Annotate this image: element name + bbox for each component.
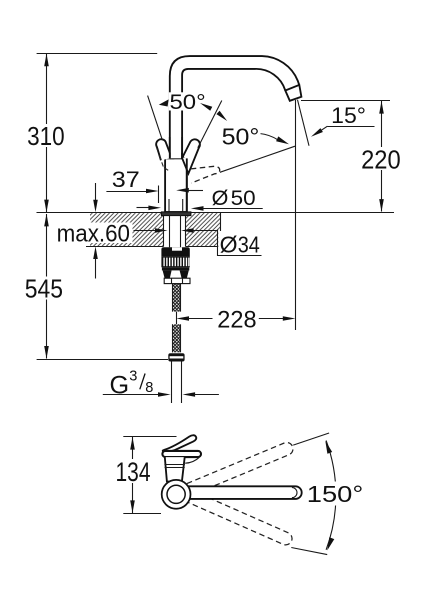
outlet vertical reference line: [295, 100, 297, 330]
label diameter 34 background: [218, 231, 263, 254]
deck right end edge: [220, 213, 222, 247]
svg-text:15°: 15°: [331, 103, 366, 128]
mounting collar: [164, 278, 190, 283]
body right edge redraw: [186, 158, 188, 212]
G3/8 threaded tube: [171, 362, 173, 404]
base flange on deck: [161, 212, 191, 216]
svg-text:Ø: Ø: [212, 186, 229, 210]
svg-text:34: 34: [238, 232, 260, 258]
hose centreline in dimension gap: [176, 312, 178, 325]
220 dimension line upper: [381, 101, 383, 147]
side-view cartridge cap: [162, 451, 201, 457]
svg-text:8: 8: [145, 380, 153, 396]
50-deg-1 ray right: [198, 101, 222, 148]
svg-text:134: 134: [116, 457, 151, 487]
220 arrow up: [379, 101, 384, 114]
228 dimension line left: [188, 318, 213, 320]
228 arrow left at axis: [176, 316, 189, 321]
50-deg-2 arc arrow: [276, 136, 289, 144]
545 arrow down: [44, 346, 49, 359]
220 top extension line: [301, 100, 390, 102]
50-deg-1 arc arrow right / 50-deg-2 arc arrow left (bowtie): [200, 103, 212, 111]
220 arrow down: [379, 199, 384, 212]
max.60 lower arrow line: [95, 258, 97, 279]
228 arrow right: [283, 316, 296, 321]
lever handle right tilted position: [182, 139, 200, 173]
G3/8 arrow left: [183, 392, 196, 397]
diameter-50 left tail line: [137, 207, 150, 209]
svg-text:545: 545: [25, 274, 63, 304]
svg-text:Ø: Ø: [220, 232, 238, 258]
310 arrow up: [44, 54, 49, 67]
diameter-34 right leader: [193, 230, 218, 232]
swivel ring outer: [162, 480, 191, 509]
lever handle horizontal position (dashed): [191, 166, 220, 183]
310 dimension line upper: [46, 54, 48, 125]
side-view spout tube: [183, 486, 302, 499]
label max.60 background: [55, 223, 133, 244]
37 leader line: [106, 191, 147, 193]
G3/8 leader line: [103, 394, 159, 396]
G3/8 connector nut: [168, 353, 184, 361]
37 extension line: [158, 186, 160, 204]
max.60 arrow up: [93, 246, 98, 259]
svg-text:50°: 50°: [222, 123, 260, 149]
diameter-34 arrow right: [155, 228, 168, 233]
mounting nut knurled ring: [161, 257, 189, 268]
mounting hole left edge: [163, 216, 165, 247]
545 arrow up: [44, 214, 49, 227]
G3/8 arrow right: [158, 392, 171, 397]
body inner line right: [182, 199, 184, 212]
50-deg-1 arc arrow left: [159, 99, 169, 106]
G3/8 right tail line: [194, 394, 219, 396]
134 dimension line lower: [132, 483, 134, 513]
15-deg leader underline: [327, 126, 374, 128]
mounting nut upper block: [161, 247, 189, 256]
150-deg arc: [326, 441, 336, 550]
134 top extension line: [123, 436, 176, 438]
shank tube left edge: [169, 216, 171, 248]
svg-text:3: 3: [129, 369, 137, 385]
37 right tail line: [188, 190, 204, 192]
mounting hole right edge: [185, 216, 187, 247]
svg-text:150°: 150°: [307, 481, 364, 507]
body inner line left: [168, 199, 170, 212]
220 dimension line lower: [381, 170, 383, 212]
15-deg leader arrow: [311, 128, 323, 137]
310 arrow down: [44, 200, 49, 213]
diameter-34 label bracket: [218, 230, 262, 256]
flexible connection hose lower braided section: [172, 324, 181, 352]
label 50-deg-1 background: [169, 92, 207, 110]
37 arrow right: [146, 189, 159, 194]
545 dimension line upper: [46, 214, 48, 277]
545 dimension line lower: [46, 300, 48, 359]
134 arrow up: [130, 437, 135, 450]
spout inner contour: [182, 69, 285, 158]
mounting wing right: [180, 270, 189, 278]
countertop deck surface line: [37, 212, 395, 214]
faucet body: [165, 158, 187, 212]
diameter-50 leader line: [203, 208, 263, 210]
150-deg ray lower: [291, 548, 327, 555]
svg-text:max.60: max.60: [57, 220, 130, 247]
deck cross-section hatching left: [90, 213, 164, 246]
50-deg-2 ray lower: [220, 146, 295, 172]
diameter-34 left leader: [134, 230, 157, 232]
svg-text:G: G: [110, 371, 130, 399]
joint mark at spout base: [170, 157, 174, 160]
cap-to-body transition curve: [185, 457, 199, 463]
lever handle left tilted position: [156, 139, 172, 160]
label 50-deg-2 background: [222, 127, 261, 147]
diameter-50 arrow right: [148, 206, 161, 211]
545 bottom extension line: [37, 359, 168, 361]
swivel spout raised position (dashed): [187, 441, 295, 496]
37 arrow left at axis: [176, 188, 189, 193]
310 top extension line: [37, 53, 158, 55]
deck bottom edge left segment: [86, 246, 164, 248]
150-deg arc arrow top: [325, 441, 332, 454]
15-deg leader diagonal: [321, 126, 328, 131]
svg-text:228: 228: [217, 307, 256, 333]
flexible connection hose upper braided section: [172, 284, 181, 312]
max.60 arrow down: [93, 200, 98, 213]
310 dimension line lower: [46, 147, 48, 212]
150-deg arc arrow bottom: [327, 537, 334, 550]
mounting wing left: [163, 270, 172, 278]
134 dimension line upper: [132, 437, 134, 459]
134 bottom extension line: [123, 513, 161, 515]
swivel ring inner: [167, 485, 185, 503]
svg-text:310: 310: [27, 121, 65, 151]
228 dimension line right: [259, 318, 284, 320]
svg-text:50: 50: [231, 186, 256, 210]
deck bottom edge right segment: [186, 246, 221, 248]
outlet direction line 15 deg: [298, 100, 310, 146]
mounting nut lower band: [162, 267, 189, 270]
spout outer contour: [170, 56, 299, 158]
50-deg-2 arc: [260, 134, 278, 140]
side-view body: [165, 457, 185, 481]
max.60 upper arrow line: [95, 183, 97, 201]
134 arrow down: [130, 500, 135, 513]
diameter-50 arrow left: [191, 206, 204, 211]
svg-text:37: 37: [112, 167, 140, 192]
aerator (mousseur) outline: [285, 85, 301, 101]
lever handle hidden-position dashes below left handle: [156, 147, 168, 171]
50-deg-1 ray left: [148, 96, 163, 141]
swivel spout lowered position (dashed): [187, 490, 294, 547]
shank tube right edge: [180, 216, 182, 248]
deck cross-section hatching right: [186, 213, 221, 246]
svg-text:220: 220: [361, 144, 401, 174]
side-view lever handle: [163, 435, 197, 452]
150-deg ray upper: [293, 433, 329, 445]
diameter-34 arrow left: [181, 228, 194, 233]
svg-text:50°: 50°: [170, 90, 206, 114]
label 150-deg background: [306, 482, 367, 506]
